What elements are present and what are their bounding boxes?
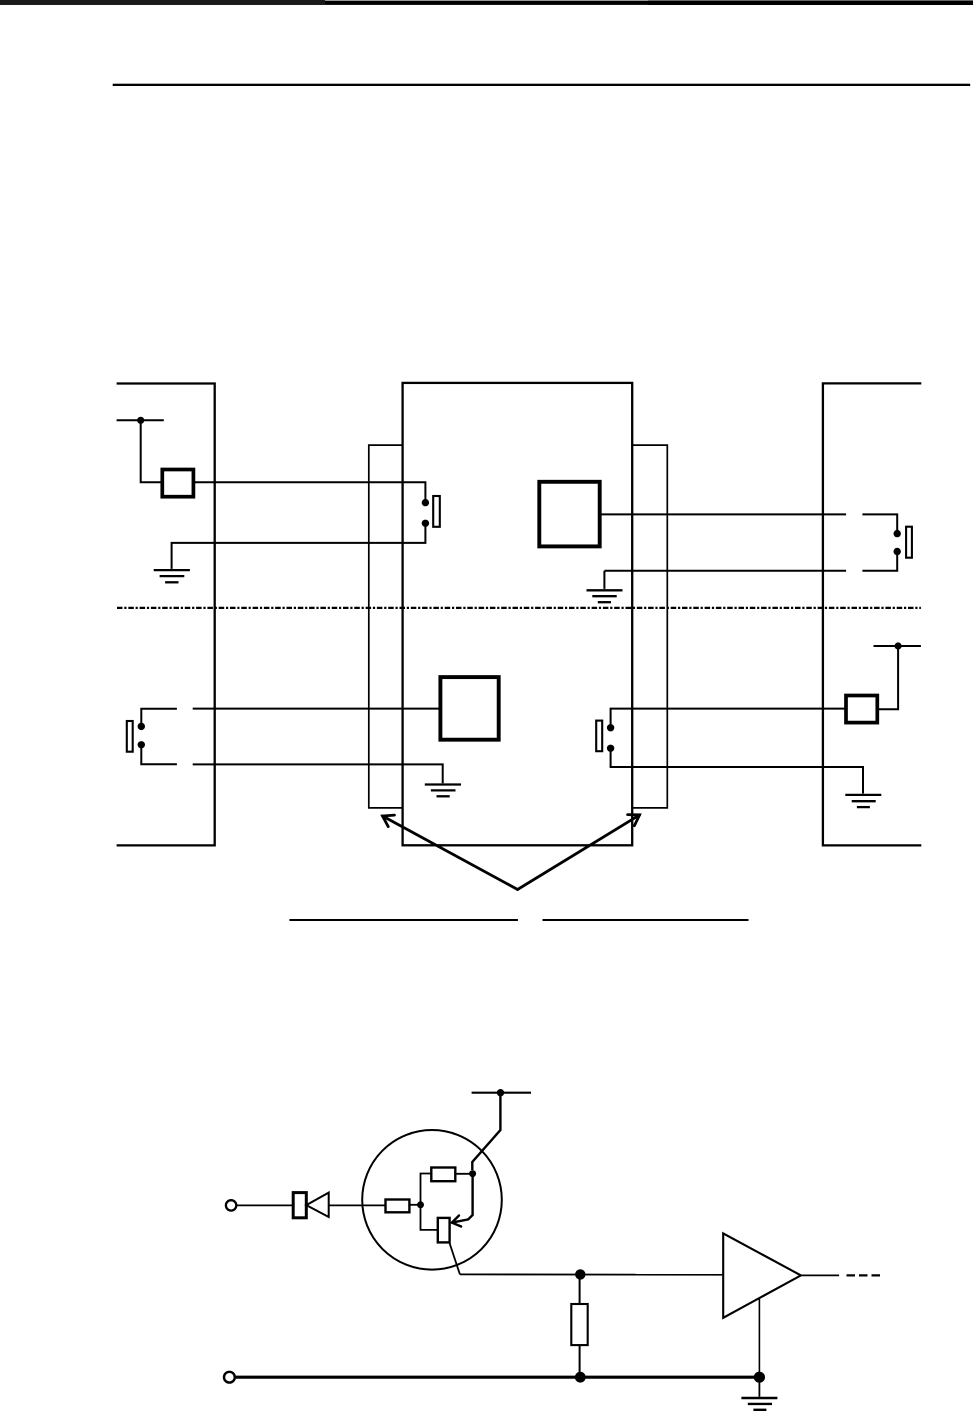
wire: collector feed	[472, 1093, 500, 1170]
ground: left box signal ground	[154, 570, 190, 582]
terminal: input A (open circle)	[226, 1200, 236, 1210]
node: pin contact lower (bottom-left connector)	[138, 741, 145, 748]
wire: R4 bottom lead	[579, 1345, 581, 1377]
ground: right box signal ground	[845, 795, 881, 807]
wire: R4 top lead	[579, 1274, 581, 1304]
wire: emitter output line	[460, 1273, 723, 1275]
ground: center box signal ground	[587, 590, 623, 602]
transistor Q1 envelope circle	[362, 1130, 502, 1270]
wire: top-left supply stub	[117, 419, 164, 421]
diode D1 triangle	[306, 1193, 328, 1217]
header bar left segment	[0, 0, 325, 5]
wire: ground stem	[758, 1377, 760, 1397]
node: output / R4 junction	[575, 1269, 585, 1279]
pin: top-right connector pin	[906, 527, 912, 558]
resistor R3 (vertical, emitter)	[438, 1218, 450, 1243]
wire: right supply stub	[874, 645, 921, 647]
node: collector junction	[469, 1170, 476, 1177]
title rule	[113, 84, 971, 86]
node: supply tap	[497, 1089, 504, 1096]
wire: bottom common rail	[235, 1376, 760, 1379]
op-amp U1	[723, 1233, 801, 1317]
wire: receiver input line	[600, 513, 846, 515]
wire: return ground drop (center box)	[603, 571, 605, 589]
left connector strip	[369, 445, 403, 808]
node: pin contact upper (bottom-right connector)	[607, 724, 614, 731]
wire: op-amp output	[801, 1274, 839, 1276]
node: rail / R4 junction	[575, 1372, 586, 1383]
node: pin contact lower (top-left connector)	[422, 520, 429, 527]
wire: R2 right lead	[409, 1204, 420, 1206]
receiver RV (right box)	[846, 696, 877, 723]
header bar	[0, 1, 973, 5]
wire: receiver return line	[604, 570, 846, 572]
pin: bottom-left connector pin	[127, 721, 133, 752]
node: rail / ground junction	[754, 1372, 765, 1383]
wire: op-amp reference drop	[758, 1298, 760, 1377]
wire: R1 right lead	[455, 1173, 472, 1175]
wire: junction down to driver	[141, 420, 163, 482]
resistor R4 (pull-down)	[571, 1304, 587, 1345]
node: pin contact lower (top-right connector)	[894, 548, 901, 555]
label underline left (connector)	[289, 919, 518, 921]
node: pin contact upper (bottom-left connector)	[138, 723, 145, 730]
pin: top-left connector pin	[433, 496, 440, 527]
left device box	[117, 384, 215, 846]
wire: dashed continuation	[847, 1274, 884, 1276]
terminal: input B (open circle)	[224, 1372, 235, 1383]
right device box	[823, 383, 921, 845]
node: top-left supply junction	[137, 417, 144, 424]
wire: return stub to right pin	[862, 552, 897, 571]
node: pin contact upper (top-left connector)	[422, 499, 429, 506]
node: base junction	[417, 1201, 424, 1208]
wire: bottom-left upper stub	[141, 709, 177, 727]
wire: input A to diode	[237, 1204, 294, 1206]
wire: cable to transmitter	[193, 708, 441, 710]
transmitter DV (center box, bottom)	[440, 677, 498, 740]
wire: cable return with ground drop	[193, 764, 443, 783]
wire: bottom-left lower stub	[141, 745, 177, 765]
resistor R1 (collector-base)	[431, 1168, 455, 1182]
boundary: signal ground dash-dot line	[117, 607, 921, 609]
diode D1 bar	[293, 1193, 306, 1218]
ground: bottom circuit ground	[741, 1398, 777, 1410]
receiver RV (center box, top)	[539, 482, 599, 547]
wire: +24V supply rail	[472, 1092, 531, 1094]
wire: input lead from diode	[329, 1204, 386, 1206]
wire: collector drop with arrowhead into R3	[452, 1174, 473, 1227]
node: pin contact lower (bottom-right connector)	[607, 745, 614, 752]
arrow: callout to left connector	[383, 815, 518, 889]
wire: return line with ground branch	[172, 523, 426, 569]
wire: driver output to connector pin	[193, 482, 425, 502]
node: right supply junction	[895, 642, 902, 649]
pin: bottom-right connector pin	[596, 721, 602, 752]
wire: emitter diagonal out of circle	[449, 1243, 460, 1275]
wire: receiver stub to right pin	[862, 514, 897, 533]
wire: receiver to supply junction	[877, 646, 898, 709]
center I/O unit box	[403, 383, 633, 845]
right connector strip	[632, 445, 667, 808]
label underline right (connector)	[543, 919, 749, 921]
wire: pin to receiver (right box)	[611, 709, 846, 728]
resistor R2 (base input)	[386, 1200, 410, 1213]
arrow: callout to right connector	[518, 815, 640, 890]
wire: R1 left lead and base rail	[421, 1174, 438, 1230]
header bar right segment	[648, 0, 973, 5]
ground: center box lower signal ground	[425, 785, 461, 797]
wire: pin return to right ground	[611, 748, 863, 793]
node: pin contact upper (top-right connector)	[894, 530, 901, 537]
driver DV (left box)	[162, 470, 193, 497]
